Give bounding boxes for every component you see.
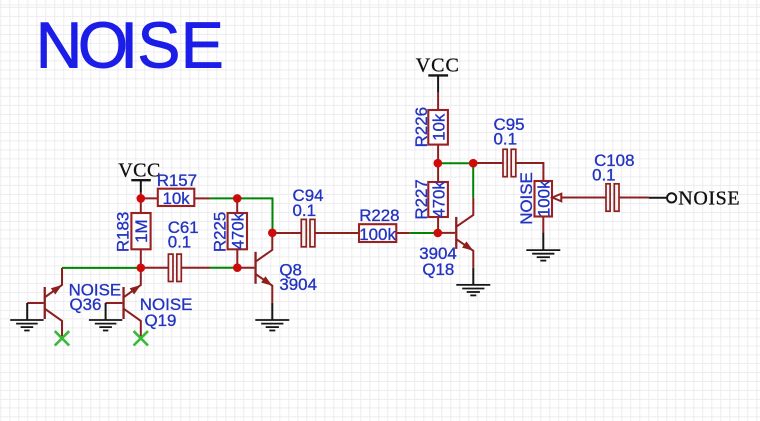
svg-text:Q18: Q18 xyxy=(422,260,454,279)
svg-text:100k: 100k xyxy=(359,225,396,244)
junction node B2 xyxy=(137,264,146,273)
capacitor C61 xyxy=(141,218,210,282)
junction node C3 xyxy=(268,229,277,238)
svg-text:NOISE: NOISE xyxy=(36,9,224,81)
capacitor C108 xyxy=(592,151,649,211)
svg-text:470k: 470k xyxy=(228,212,247,249)
svg-text:470k: 470k xyxy=(429,181,448,218)
wire W6 (node D2 down to Q18 collector) xyxy=(472,163,474,198)
power port VCC (top) xyxy=(428,75,448,92)
ground (Q36 base) xyxy=(10,303,43,331)
svg-text:Q36: Q36 xyxy=(70,295,102,314)
svg-text:R225: R225 xyxy=(210,212,229,252)
resistor R227 xyxy=(412,163,449,233)
svg-text:R183: R183 xyxy=(114,212,133,252)
junction node B3 xyxy=(233,263,242,272)
wire W5 (node D1 to node D2) xyxy=(438,162,473,164)
svg-text:VCC: VCC xyxy=(416,54,460,76)
wire W3 (R157 right to Q8 collector node) xyxy=(210,198,273,232)
svg-text:0.1: 0.1 xyxy=(168,232,191,251)
wire W4 (R228 right to Q18 base node) xyxy=(410,232,438,234)
resistor R157 xyxy=(141,171,210,208)
capacitor C95 xyxy=(473,115,543,181)
transistor Q19 xyxy=(106,268,193,339)
svg-text:R157: R157 xyxy=(157,171,197,190)
ground (Q18 emitter) xyxy=(456,268,490,296)
svg-text:R226: R226 xyxy=(412,107,431,147)
wire W1 (Q36 emitter to node B) xyxy=(62,267,141,269)
svg-text:3904: 3904 xyxy=(279,275,317,294)
no-ERC cross X (Q19 collector) xyxy=(134,331,148,345)
ground (100k) xyxy=(526,232,560,260)
svg-text:R228: R228 xyxy=(359,206,399,225)
svg-text:NOISE: NOISE xyxy=(678,188,740,210)
power port VCC (left) xyxy=(131,180,151,192)
transistor Q8 xyxy=(237,233,317,303)
junction node D1 xyxy=(434,159,443,168)
svg-text:0.1: 0.1 xyxy=(293,201,316,220)
svg-text:R227: R227 xyxy=(412,179,431,219)
svg-text:10k: 10k xyxy=(429,113,448,141)
resistor 100k (NOISE) xyxy=(517,172,554,232)
junction node A1 xyxy=(137,194,146,203)
no-ERC cross X (Q36 collector) xyxy=(55,331,69,345)
junction node D2 xyxy=(469,159,478,168)
ground (Q8 emitter) xyxy=(255,303,289,331)
svg-text:VCC: VCC xyxy=(118,160,161,182)
junction node G xyxy=(434,229,443,238)
transistor Q36 xyxy=(27,268,121,338)
wire arrow into 100k xyxy=(552,194,606,202)
svg-text:100k: 100k xyxy=(535,180,554,217)
capacitor C94 xyxy=(272,186,359,247)
junction node A2 xyxy=(233,194,242,203)
svg-text:10k: 10k xyxy=(162,189,190,208)
resistor R226 xyxy=(412,93,449,163)
svg-text:NOISE: NOISE xyxy=(517,172,536,225)
transistor Q18 xyxy=(419,198,473,279)
resistor R183 xyxy=(114,193,151,268)
svg-text:0.1: 0.1 xyxy=(494,130,517,149)
svg-text:Q19: Q19 xyxy=(145,311,177,330)
resistor R228 xyxy=(359,206,410,244)
ground (Q19 base) xyxy=(89,303,122,331)
resistor R225 xyxy=(210,198,247,267)
svg-text:0.1: 0.1 xyxy=(592,165,615,184)
svg-text:1M: 1M xyxy=(132,219,151,242)
port NOISE (right) xyxy=(649,188,740,210)
wire W2 (C61 right to node B3) xyxy=(210,267,237,269)
